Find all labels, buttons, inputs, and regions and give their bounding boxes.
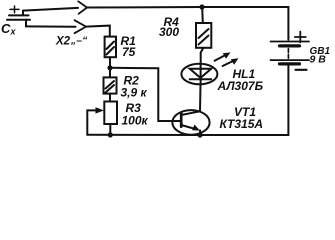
wire bottom probe <box>26 25 76 27</box>
junction R1-R2-base <box>107 65 112 70</box>
label R1 75 <box>121 34 137 59</box>
connector X2 pin top <box>78 1 87 14</box>
label R2 3,9к <box>121 74 148 100</box>
connector X2 pin bottom <box>75 20 87 33</box>
wire R1 to R2 <box>109 57 111 77</box>
wire X2 to R1 <box>86 26 110 37</box>
wire top probe <box>23 8 78 11</box>
label R3 100к <box>122 101 149 128</box>
label R4 300 <box>159 15 179 39</box>
label HL1 АЛ307Б <box>217 67 264 93</box>
LED HL1 <box>181 52 238 84</box>
transistor VT1 <box>172 110 209 135</box>
label VT1 КТ315А <box>220 105 264 131</box>
svg-text:100к: 100к <box>122 114 149 128</box>
svg-text:КТ315А: КТ315А <box>220 117 264 131</box>
resistor R2 <box>104 77 117 93</box>
junction emitter-rail <box>197 132 202 137</box>
resistor R4 <box>196 7 211 48</box>
svg-text:„–“: „–“ <box>70 35 88 47</box>
label Cx <box>1 21 17 37</box>
label GB1 9В <box>310 46 331 66</box>
wire bottom rail <box>87 64 288 135</box>
wire node to base of VT1 <box>110 68 181 121</box>
junction R3 bottom <box>108 132 113 137</box>
wire R4 to LED <box>201 48 204 64</box>
label X2 „–“ <box>55 35 88 48</box>
svg-text:x: x <box>10 27 17 37</box>
junction top rail / R4 <box>199 4 204 9</box>
wire LED to VT1 collector <box>199 84 202 111</box>
svg-text:X2: X2 <box>55 36 71 48</box>
svg-text:3,9 к: 3,9 к <box>121 86 148 100</box>
svg-text:9 В: 9 В <box>310 54 327 66</box>
potentiometer R3 <box>87 102 117 135</box>
capacitor Cx <box>7 6 30 26</box>
svg-text:C: C <box>1 21 11 36</box>
wire R3 bottom <box>109 124 111 135</box>
svg-text:АЛ307Б: АЛ307Б <box>217 79 264 93</box>
svg-text:75: 75 <box>122 45 136 59</box>
wire top rail <box>87 7 288 40</box>
wire R2 to R3 <box>109 94 111 102</box>
svg-text:300: 300 <box>159 25 179 39</box>
resistor R1 <box>105 37 116 58</box>
battery GB1 <box>271 32 310 70</box>
